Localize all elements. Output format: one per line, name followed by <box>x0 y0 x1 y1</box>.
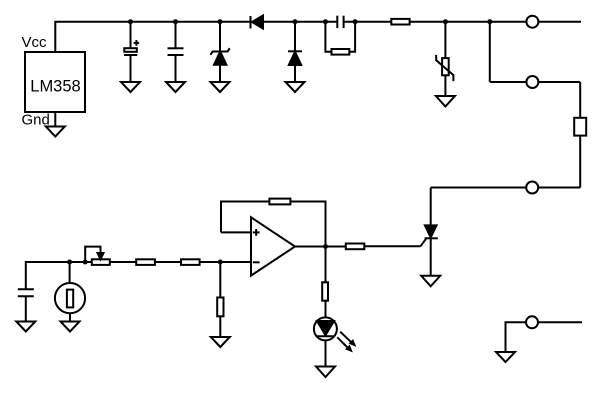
ground C1 <box>121 82 140 92</box>
resistor R1 <box>136 259 155 265</box>
ground D4 <box>316 367 335 378</box>
wire R3 parallel loop <box>325 22 331 52</box>
node junction C3 left <box>323 19 328 24</box>
wire R3 parallel loop right <box>349 22 355 52</box>
op-amp U2 <box>251 217 295 275</box>
node junction RV1 <box>443 19 448 24</box>
capacitor C4 <box>18 289 34 321</box>
ground RV1 <box>436 96 455 107</box>
wire top rail left segment <box>55 22 337 52</box>
wire right vertical through R5 <box>579 82 581 188</box>
wire row2 to right edge <box>490 81 580 83</box>
ground C4 <box>16 322 35 332</box>
ground Q1 <box>421 276 440 287</box>
wire C2 branch <box>175 22 177 49</box>
node junction D2 <box>218 19 223 24</box>
capacitor C2 <box>168 48 184 82</box>
LED arrow 2 <box>337 337 352 351</box>
resistor R3 <box>332 49 350 55</box>
resistor R9 LED <box>322 282 328 300</box>
ground C2 <box>166 82 185 92</box>
ground R8 <box>211 337 230 347</box>
resistor R7 feedback <box>269 199 290 205</box>
LED arrow 1 <box>340 332 355 346</box>
svg-text:LM358: LM358 <box>30 78 80 96</box>
resistor R4 on rail <box>391 19 409 25</box>
wire down from rail to row2 <box>489 22 491 82</box>
wire R9 to LED <box>325 301 327 318</box>
wire D3 branch <box>294 22 296 52</box>
wire U1 gnd pin <box>54 112 56 127</box>
wire feedback loop <box>221 202 326 247</box>
connector pin P2 <box>526 76 538 88</box>
resistor R5 <box>574 118 586 136</box>
node junction output <box>323 244 328 249</box>
wire op-amp output <box>295 246 346 248</box>
node junction output tap <box>487 19 492 24</box>
wire C1 branch <box>130 22 132 49</box>
wire signal input line <box>26 262 251 289</box>
sensor TH1 thermistor in circle <box>55 262 85 322</box>
node junction C2 <box>173 19 178 24</box>
capacitor C1 polarized electrolytic <box>124 40 139 82</box>
ground TH1 <box>61 322 80 332</box>
resistor R2 <box>181 259 200 265</box>
IC U1 LM358 power box <box>25 52 85 112</box>
connector pin P3 <box>526 182 538 194</box>
wire top rail right segment <box>344 21 581 23</box>
ground U1 <box>46 127 65 137</box>
LED D4 <box>314 317 337 366</box>
ground D3 <box>286 82 305 92</box>
node junction C1 <box>128 19 133 24</box>
node junction divider <box>218 260 223 265</box>
thyristor Q1 <box>421 188 438 276</box>
resistor R8 divider <box>217 262 223 337</box>
diode D3 <box>288 51 302 82</box>
potentiometer RV2 <box>85 247 110 265</box>
wire D2 branch <box>219 22 221 52</box>
zener diode D2 <box>211 48 230 82</box>
node junction sensor <box>67 260 72 265</box>
varistor RV1 <box>436 55 453 96</box>
svg-text:Vcc: Vcc <box>22 34 48 51</box>
ground P4 <box>496 352 515 362</box>
wire gate <box>364 245 420 247</box>
ground D2 <box>211 82 230 92</box>
wire LED branch <box>325 247 327 283</box>
diode D1 series on rail <box>251 16 264 29</box>
node junction D3 <box>293 19 298 24</box>
connector pin P1 <box>526 16 538 28</box>
connector pin P4 <box>526 316 538 328</box>
resistor R6 gate <box>346 244 365 250</box>
wire row4 bottom right <box>506 322 583 352</box>
wire non-inverting input <box>221 231 251 233</box>
node junction C3 right <box>353 19 358 24</box>
wire RV1 branch <box>444 22 446 58</box>
capacitor C3 on rail <box>337 16 343 28</box>
node junction potentiometer <box>83 260 88 265</box>
wire row3 <box>431 187 581 189</box>
